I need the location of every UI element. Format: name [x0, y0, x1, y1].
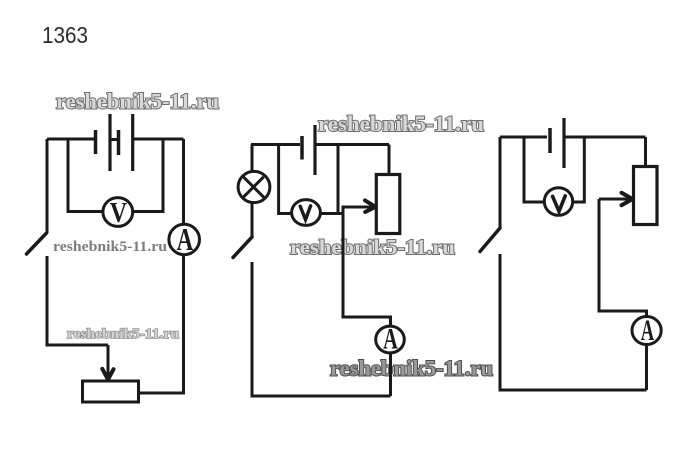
lamp HL1 — [238, 171, 270, 202]
svg-text:reshebnik5-11.ru: reshebnik5-11.ru — [56, 89, 219, 114]
svg-text:A: A — [383, 322, 398, 356]
wire: left branch upper to switch — [46, 139, 49, 233]
svg-text:A: A — [641, 315, 654, 347]
battery GB2 long plate — [313, 125, 316, 175]
ammeter A2 — [376, 326, 405, 353]
wire: left branch lower + bottom wire — [500, 254, 647, 390]
wire: battery tap down to voltmeter wire — [337, 145, 340, 214]
battery GB3 short plate — [548, 128, 552, 153]
rheostat R2 slider arrow — [342, 206, 374, 209]
ammeter A3 — [632, 317, 661, 345]
wire: top right segment — [564, 136, 646, 139]
wire: voltmeter left connection — [279, 145, 292, 214]
switch S2 blade — [233, 237, 252, 258]
voltmeter V3 — [544, 188, 572, 216]
wire: top right segment — [315, 143, 389, 146]
svg-text:reshebnik5-11.ru: reshebnik5-11.ru — [330, 356, 493, 381]
rheostat R2 body — [376, 175, 400, 234]
wire: right vertical to rheostat top — [388, 145, 391, 176]
wire: slider junction down to ammeter — [343, 207, 391, 396]
voltmeter V2 — [292, 200, 321, 226]
wire: top left segment — [47, 138, 94, 141]
svg-text:A: A — [177, 222, 194, 258]
wire: left branch lower — [47, 256, 108, 345]
wire: top left segment — [500, 136, 547, 139]
meter letter V2 — [300, 206, 310, 220]
switch S3 blade — [480, 228, 500, 252]
switch S1 blade — [27, 233, 47, 254]
ammeter A1 — [169, 224, 200, 254]
battery GB1 cell connector — [110, 138, 119, 141]
battery GB3 long plate — [562, 118, 565, 168]
wire: left branch lower + bottom wire — [252, 262, 391, 396]
wire: voltmeter loop — [68, 139, 163, 212]
lamp HL1 cross — [243, 177, 264, 198]
svg-text:reshebnik5-11.ru: reshebnik5-11.ru — [67, 326, 180, 341]
wire: top right segment — [133, 138, 184, 141]
battery GB1 short plate 1 — [94, 130, 98, 154]
rheostat R1 body — [83, 381, 139, 402]
battery GB1 long plate 2 — [131, 114, 134, 171]
svg-text:V: V — [110, 198, 128, 229]
wire: right vertical to rheostat top — [644, 137, 647, 167]
battery GB1 long plate 1 — [108, 114, 111, 171]
battery GB2 short plate — [300, 136, 304, 160]
wire: voltmeter right connection — [320, 212, 343, 215]
svg-text:reshebnik5-11.ru: reshebnik5-11.ru — [53, 239, 167, 255]
wire: voltmeter loop — [524, 137, 584, 202]
voltmeter V1 — [103, 198, 133, 227]
meter letter V3 — [553, 196, 566, 211]
rheostat R3 slider arrow — [599, 198, 630, 201]
wire: slider junction down to ammeter — [599, 199, 647, 390]
battery GB1 short plate 2 — [117, 130, 121, 155]
svg-text:reshebnik5-11.ru: reshebnik5-11.ru — [318, 111, 484, 136]
wire: top left segment — [251, 143, 300, 146]
rheostat R1 slider arrow — [107, 345, 110, 376]
wire: lamp/switch left branch — [251, 145, 254, 238]
wire: left branch upper to switch — [499, 137, 502, 228]
rheostat R3 body — [634, 167, 658, 225]
wire: right branch with ammeter down to rheostat — [137, 139, 184, 393]
svg-text:1363: 1363 — [42, 22, 88, 48]
svg-text:reshebnik5-11.ru: reshebnik5-11.ru — [290, 235, 455, 259]
